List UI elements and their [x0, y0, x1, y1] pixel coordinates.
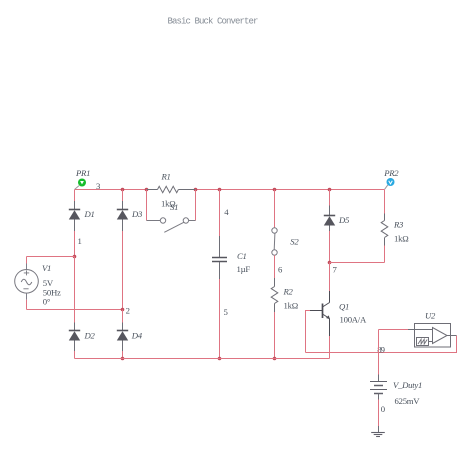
wire Q1 emitter to bottom rail [329, 336, 331, 359]
svg-text:1kΩ: 1kΩ [394, 234, 408, 244]
wire R3 bottom lead [384, 246, 386, 263]
node 1 junction [73, 255, 77, 259]
svg-text:100A/A: 100A/A [340, 315, 367, 325]
wire battery to U2 input vertical [378, 330, 380, 375]
node 7 junction [328, 261, 332, 265]
wire top rail right segment [330, 189, 385, 191]
svg-text:D2: D2 [84, 331, 96, 341]
wire Q1 base red segment [306, 311, 311, 353]
svg-text:D1: D1 [84, 209, 95, 219]
pwm block U2 [408, 311, 457, 348]
wire node 7 to Q1 collector [329, 263, 331, 292]
svg-text:D5: D5 [338, 215, 350, 225]
svg-text:C1: C1 [237, 251, 247, 261]
wire S1 left drop [146, 190, 148, 221]
svg-text:0°: 0° [43, 297, 51, 307]
diode D4 [117, 323, 143, 352]
svg-text:PR1: PR1 [75, 168, 90, 178]
svg-text:7: 7 [333, 265, 338, 275]
junction R1 right [194, 188, 198, 192]
svg-text:0: 0 [381, 404, 386, 414]
svg-text:3: 3 [96, 181, 100, 191]
resistor R1 [147, 172, 196, 209]
wire top rail left segment [75, 189, 147, 191]
wire S2 top lead [274, 190, 276, 228]
wire top rail middle segment [196, 189, 330, 191]
wire D3 to node 2 [122, 231, 124, 310]
diode D5 [324, 206, 350, 232]
svg-text:5V: 5V [43, 278, 54, 288]
switch S1 [147, 202, 196, 232]
wire base bottom run to U2 output [306, 336, 457, 353]
wire node1 horizontal to V1 [27, 256, 75, 258]
probe PR2 [383, 168, 399, 189]
svg-text:6: 6 [278, 265, 283, 275]
wire D3 branch top lead [122, 190, 124, 202]
wire node1 to D2 [74, 257, 76, 323]
junction D5 top [328, 188, 332, 192]
svg-text:Q1: Q1 [339, 302, 349, 312]
ground [371, 426, 385, 437]
svg-text:D3: D3 [131, 209, 143, 219]
junction C1 top [218, 188, 222, 192]
svg-text:Basic Buck Converter: Basic Buck Converter [168, 17, 259, 27]
svg-text:V1: V1 [42, 263, 51, 273]
wire bottom ground rail [75, 358, 330, 360]
junction bottom rail at C1 [218, 357, 222, 361]
wire V1 to node 2 [27, 309, 123, 311]
svg-text:U2: U2 [425, 311, 436, 321]
wire node2 to D4 [122, 310, 124, 323]
diode D1 [69, 201, 95, 231]
svg-text:5: 5 [224, 307, 228, 317]
wire D4 to bottom rail [122, 351, 124, 359]
svg-text:9: 9 [381, 345, 385, 355]
svg-text:S2: S2 [290, 236, 299, 246]
svg-text:1µF: 1µF [237, 264, 251, 274]
diode D2 [69, 323, 96, 352]
node 2 junction [121, 308, 125, 312]
wire D1 branch top lead [74, 190, 76, 202]
svg-text:D4: D4 [131, 331, 143, 341]
svg-text:PR2: PR2 [383, 168, 399, 178]
svg-text:R1: R1 [161, 172, 171, 182]
wire V1 bottom lead [26, 293, 28, 300]
probe PR1 [75, 168, 90, 189]
wire R3 top lead [384, 190, 386, 214]
wire D1 to node 1 [74, 231, 76, 257]
svg-text:1: 1 [78, 236, 82, 246]
junction D3 top [121, 188, 125, 192]
wire R2 to bottom rail [274, 312, 276, 359]
svg-text:R2: R2 [283, 287, 294, 297]
wire S2 to R2 [274, 255, 276, 278]
wire D2 to bottom rail [74, 351, 76, 359]
junction bottom rail at D4 [121, 357, 125, 361]
svg-text:R3: R3 [393, 220, 404, 230]
wire D5 to node 7 [329, 231, 331, 263]
svg-text:625mV: 625mV [395, 396, 421, 406]
wire C1 top lead [219, 190, 221, 237]
svg-text:V_Duty1: V_Duty1 [393, 380, 422, 390]
source V1 [15, 263, 61, 307]
diode D3 [117, 201, 143, 231]
svg-text:2: 2 [126, 306, 130, 316]
junction S2 top [273, 188, 277, 192]
wire D5 top lead [329, 190, 331, 206]
junction bottom rail at R2 [273, 357, 277, 361]
battery V_Duty1 [370, 375, 422, 407]
wire C1 bottom lead [219, 279, 221, 359]
resistor R2 [271, 278, 298, 312]
capacitor C1 [212, 236, 250, 279]
wire battery to ground [378, 400, 380, 427]
resistor R3 [381, 214, 408, 246]
wire V1 top lead [26, 257, 28, 264]
svg-text:1kΩ: 1kΩ [284, 301, 298, 311]
svg-text:4: 4 [224, 207, 229, 217]
svg-text:S1: S1 [170, 202, 178, 212]
wire U2 input horizontal [379, 329, 409, 331]
transistor Q1 [310, 291, 367, 336]
switch S2 [272, 228, 300, 255]
junction R1 left [145, 188, 149, 192]
wire S1 right drop [195, 190, 197, 221]
wire node 7 to R3 bottom [330, 262, 385, 264]
